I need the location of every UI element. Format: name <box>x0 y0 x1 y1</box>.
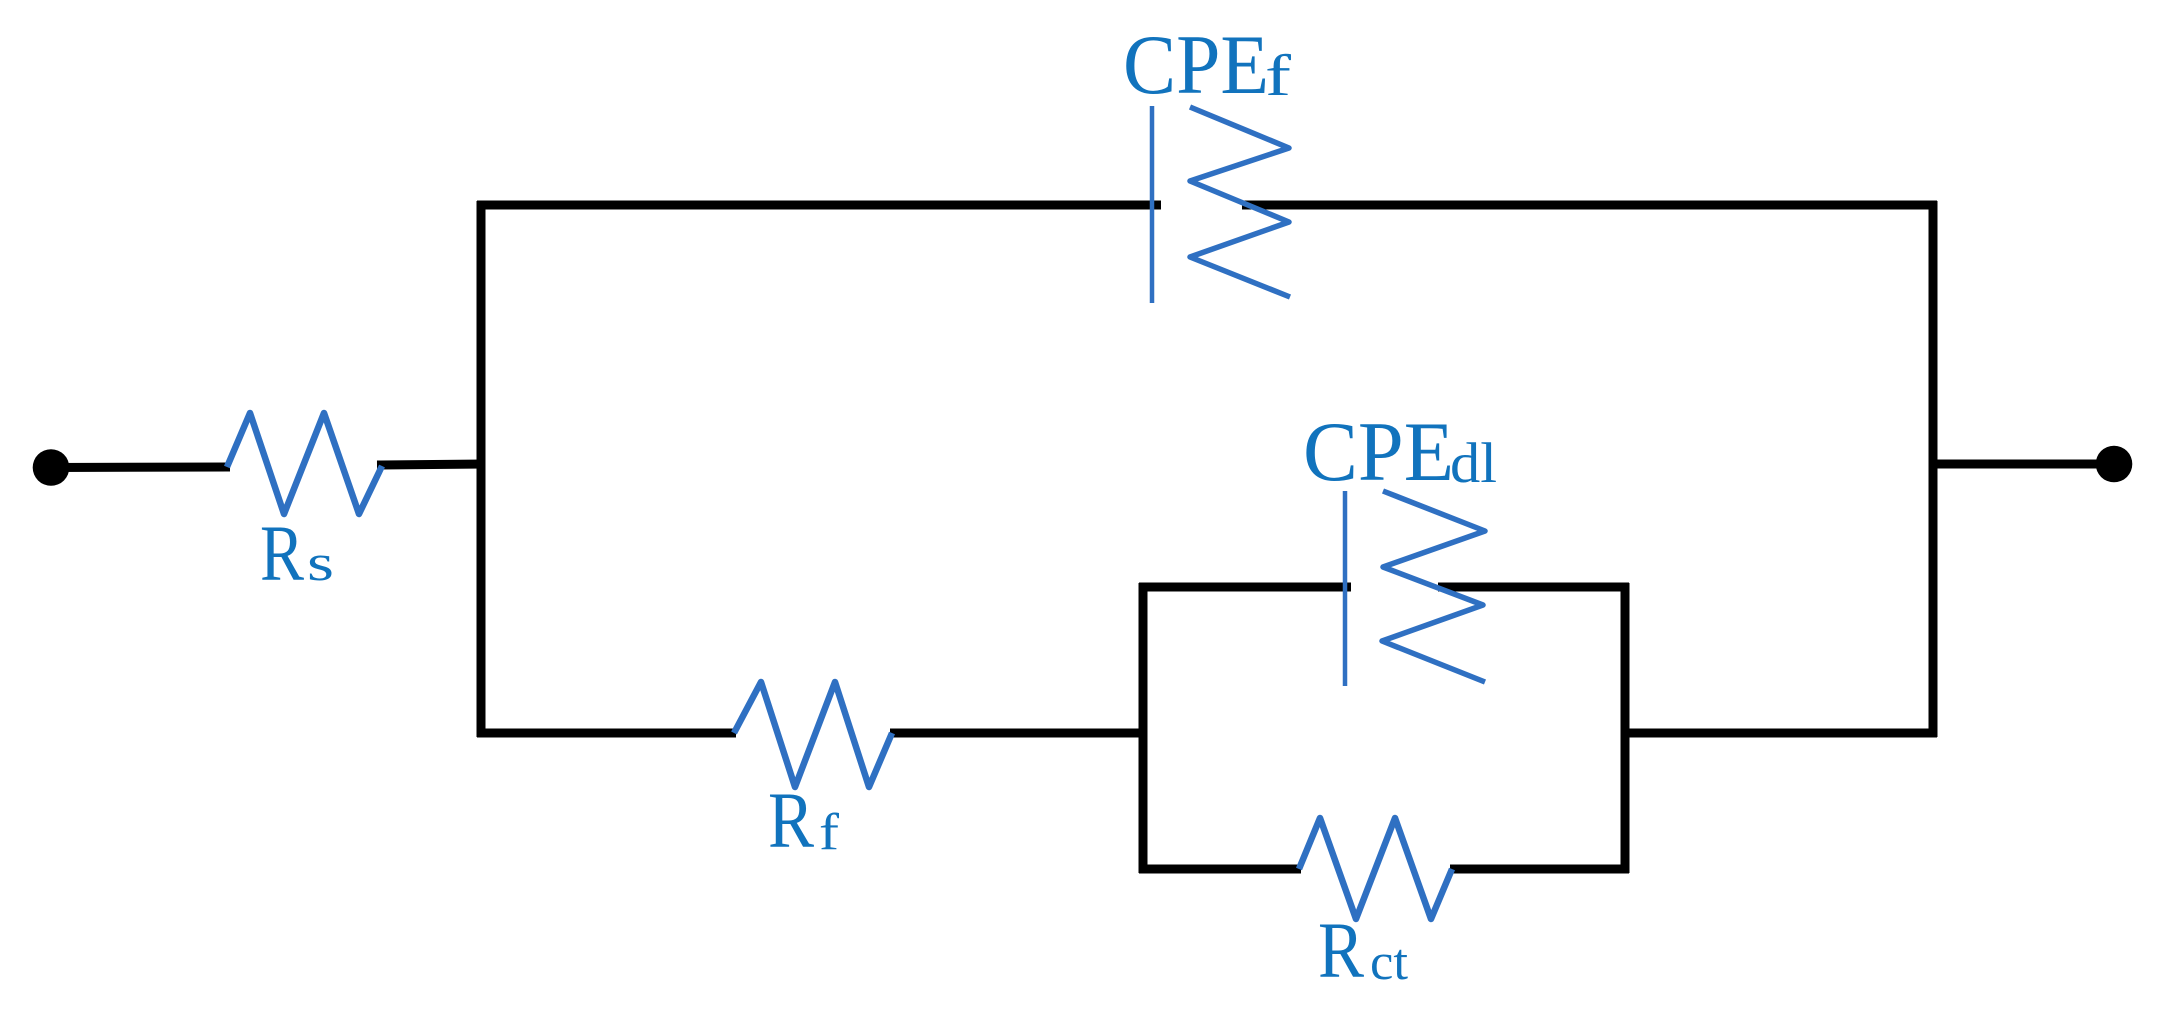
wire bottom branch left (junction to Rf) <box>477 729 736 738</box>
inner box top wire left (to CPEdl plate) <box>1139 583 1351 592</box>
svg-text:CPE: CPE <box>1123 18 1269 112</box>
label CPEf <box>1123 18 1292 112</box>
svg-text:s: s <box>307 535 334 592</box>
CPE element CPEdl : zigzag <box>1382 491 1485 682</box>
wire top branch left (to CPEf plate) <box>477 201 1161 210</box>
inner box bottom wire left (to Rct) <box>1139 865 1301 874</box>
inner box left vertical wire <box>1139 583 1148 873</box>
svg-text:dl: dl <box>1450 432 1497 495</box>
wire left vertical branch <box>477 201 486 737</box>
wire left terminal to Rs <box>51 463 230 473</box>
CPE element CPEf : plate <box>1150 106 1155 303</box>
label Rct <box>1318 908 1409 995</box>
wire bottom branch right (inner box to right vertical) <box>1621 729 1937 738</box>
resistor Rf <box>734 682 892 787</box>
svg-text:R: R <box>1318 908 1364 995</box>
CPE element CPEdl : plate <box>1343 491 1348 686</box>
wire top branch right (from CPEf to right vertical) <box>1242 201 1937 210</box>
wire Rs to left junction <box>377 464 485 465</box>
terminal dot left <box>33 449 70 486</box>
inner box top wire right (from CPEdl) <box>1438 583 1629 592</box>
resistor Rs <box>227 413 382 514</box>
label CPEdl <box>1303 405 1497 499</box>
wire bottom branch mid (Rf to inner box) <box>890 729 1147 738</box>
resistor Rct <box>1299 818 1452 919</box>
terminal dot right <box>2096 446 2133 483</box>
inner box bottom wire right (from Rct) <box>1450 865 1629 874</box>
svg-text:f: f <box>819 804 840 861</box>
label Rf <box>768 778 840 865</box>
CPE element CPEf : zigzag <box>1190 107 1290 297</box>
wire right terminal <box>1933 460 2100 469</box>
svg-text:CPE: CPE <box>1303 405 1454 499</box>
svg-text:ct: ct <box>1370 934 1409 991</box>
label Rs <box>260 511 334 598</box>
svg-text:R: R <box>768 778 814 865</box>
inner box right vertical wire <box>1621 583 1630 873</box>
svg-text:f: f <box>1265 43 1292 108</box>
wire right vertical branch <box>1929 201 1938 737</box>
svg-text:R: R <box>260 511 304 598</box>
